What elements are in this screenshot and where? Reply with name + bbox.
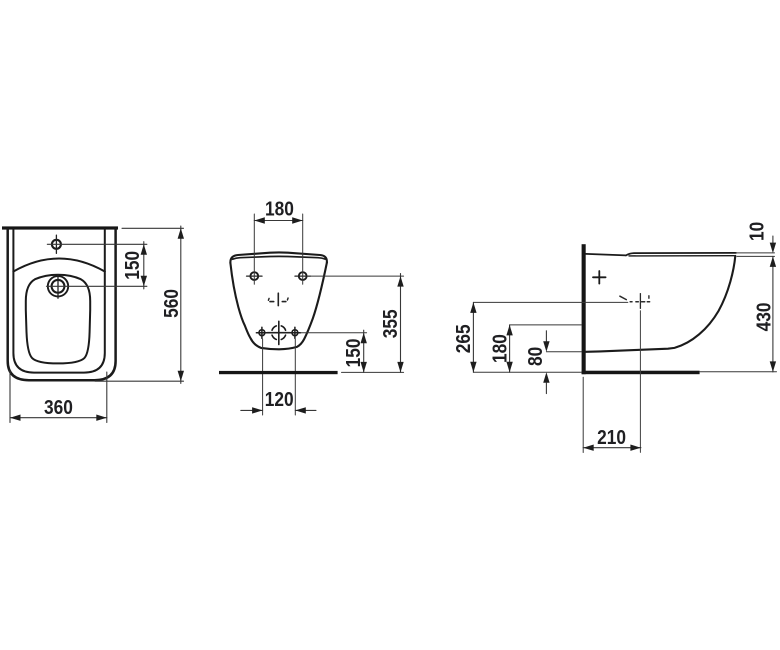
svg-text:430: 430 <box>753 303 776 332</box>
svg-text:150: 150 <box>122 251 145 280</box>
svg-text:150: 150 <box>342 338 365 367</box>
svg-text:265: 265 <box>453 324 476 353</box>
svg-text:560: 560 <box>161 289 184 318</box>
svg-text:360: 360 <box>44 397 73 420</box>
svg-text:80: 80 <box>525 347 548 366</box>
svg-text:210: 210 <box>597 426 626 449</box>
svg-text:180: 180 <box>265 198 294 221</box>
svg-text:355: 355 <box>379 309 402 338</box>
svg-text:120: 120 <box>265 389 294 412</box>
svg-text:180: 180 <box>489 334 512 363</box>
svg-text:10: 10 <box>746 222 769 241</box>
